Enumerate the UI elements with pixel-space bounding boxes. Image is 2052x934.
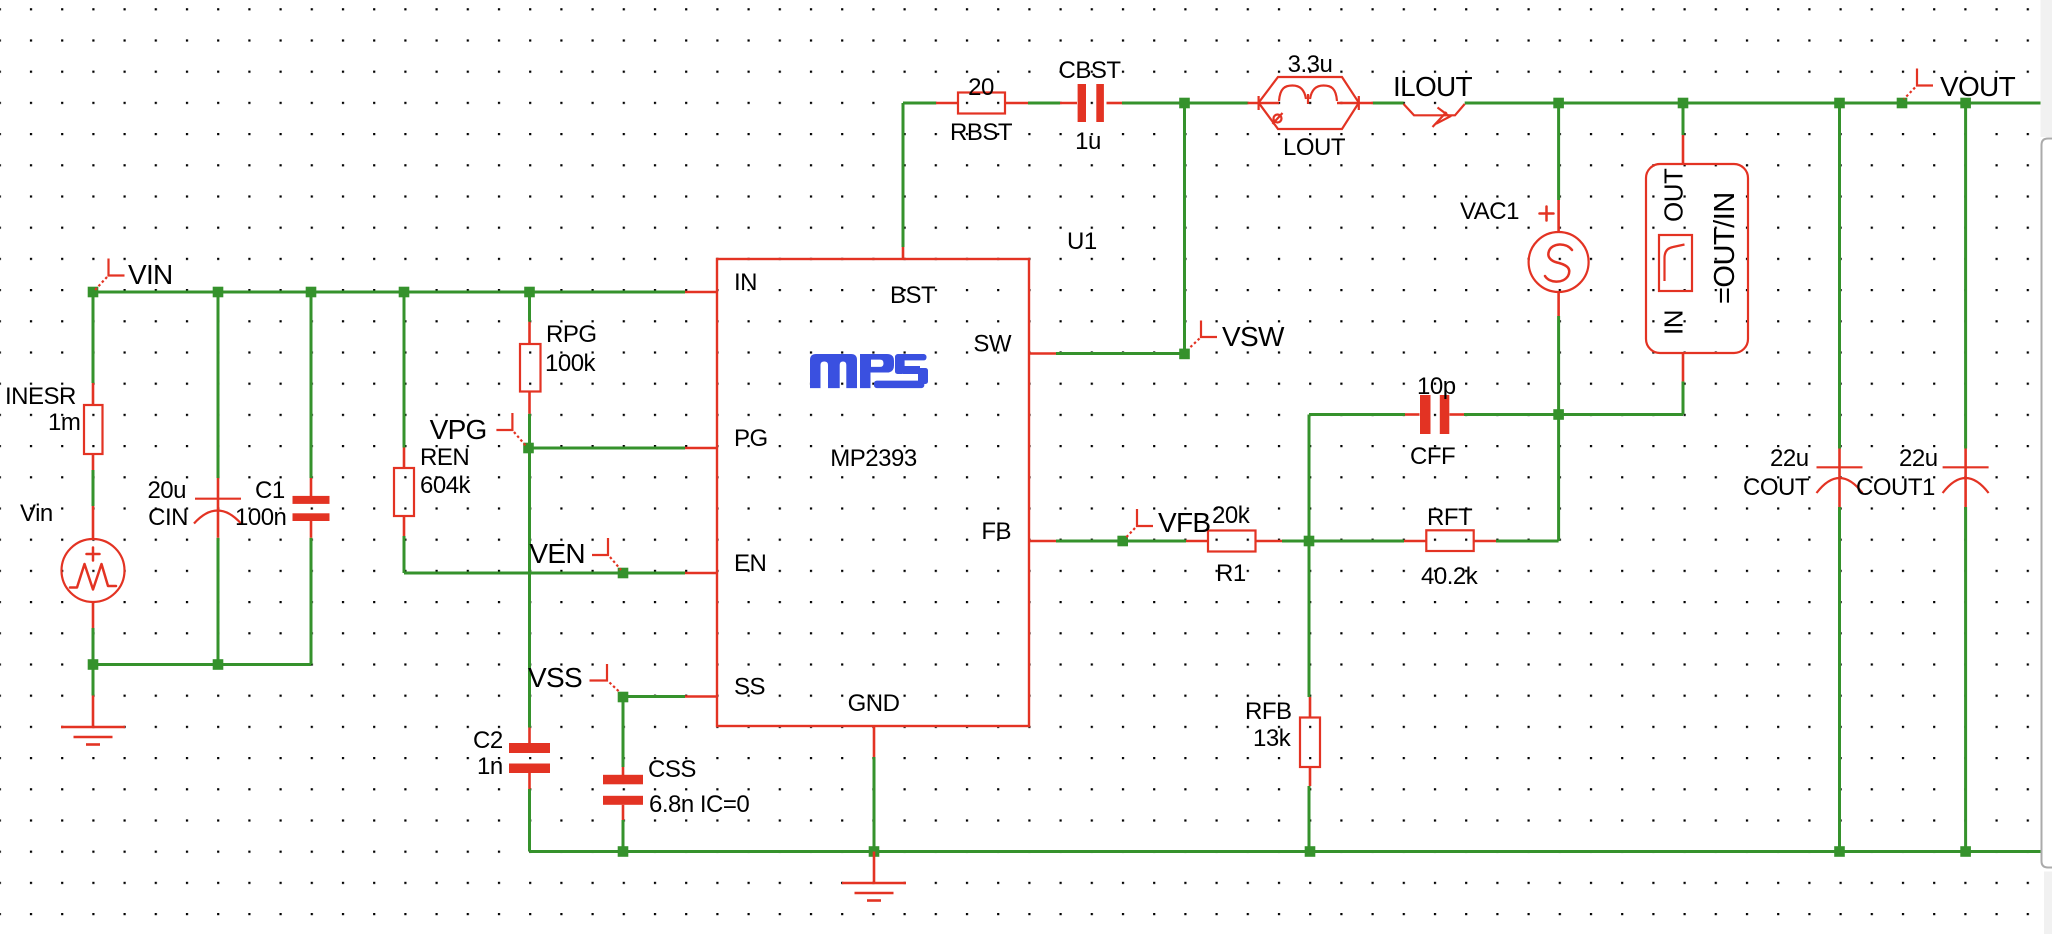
svg-text:RFT: RFT [1427,504,1473,531]
svg-text:RBST: RBST [950,119,1013,146]
svg-text:LOUT: LOUT [1283,134,1346,161]
svg-text:VPG: VPG [430,414,487,445]
svg-text:REN: REN [420,444,469,471]
svg-text:100n: 100n [235,504,286,531]
svg-text:CBST: CBST [1058,57,1121,84]
svg-text:INESR: INESR [5,383,76,410]
svg-text:604k: 604k [420,472,472,499]
svg-text:22u: 22u [1899,445,1938,472]
svg-text:COUT: COUT [1743,474,1810,501]
svg-text:VIN: VIN [128,259,173,290]
svg-text:1u: 1u [1075,128,1101,155]
svg-text:VSS: VSS [528,662,582,693]
svg-text:SW: SW [973,331,1012,358]
svg-text:PG: PG [734,425,768,452]
svg-text:22u: 22u [1770,445,1809,472]
svg-text:ILOUT: ILOUT [1393,71,1473,102]
svg-text:20u: 20u [147,477,186,504]
svg-text:10p: 10p [1417,373,1456,400]
svg-text:OUT: OUT [1659,168,1689,222]
svg-text:1m: 1m [48,409,80,436]
svg-text:C1: C1 [255,477,285,504]
svg-text:20k: 20k [1212,502,1251,529]
svg-text:VOUT: VOUT [1940,71,2016,102]
svg-text:RFB: RFB [1245,698,1292,725]
svg-text:VAC1: VAC1 [1460,198,1519,225]
svg-text:MP2393: MP2393 [830,445,917,472]
svg-text:COUT1: COUT1 [1856,474,1935,501]
svg-text:VFB: VFB [1158,507,1210,538]
svg-text:RPG: RPG [546,321,597,348]
svg-text:VEN: VEN [529,538,584,569]
svg-text:40.2k: 40.2k [1421,563,1479,590]
svg-text:VSW: VSW [1222,321,1285,352]
svg-text:EN: EN [734,550,766,577]
svg-text:CSS: CSS [648,756,696,783]
svg-text:6.8n IC=0: 6.8n IC=0 [649,791,749,818]
svg-text:U1: U1 [1067,228,1097,255]
svg-text:CIN: CIN [148,504,188,531]
svg-text:20: 20 [968,74,994,101]
svg-text:IN: IN [1659,310,1689,335]
svg-text:1n: 1n [477,753,503,780]
svg-text:=OUT/IN: =OUT/IN [1709,192,1741,304]
svg-text:SS: SS [734,674,765,701]
svg-text:13k: 13k [1253,725,1292,752]
svg-text:C2: C2 [473,727,503,754]
svg-text:BST: BST [890,282,936,309]
svg-text:IN: IN [734,269,757,296]
svg-text:FB: FB [981,518,1011,545]
svg-text:R1: R1 [1216,560,1246,587]
svg-text:Vin: Vin [20,500,53,527]
svg-text:100k: 100k [545,350,597,377]
svg-text:3.3u: 3.3u [1288,51,1333,78]
svg-text:CFF: CFF [1410,443,1455,470]
svg-text:GND: GND [848,690,900,717]
